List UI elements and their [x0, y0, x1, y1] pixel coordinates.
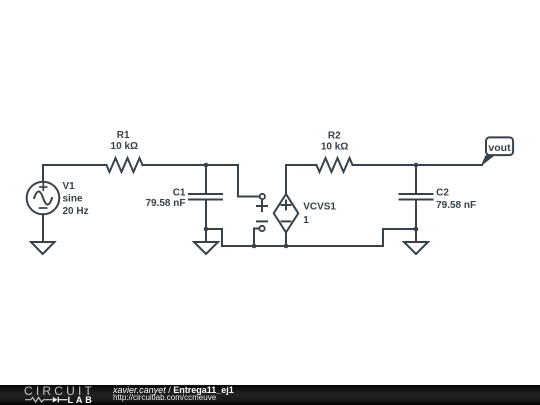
wire: C1 branch top	[205, 165, 207, 194]
dependent source VCVS1 (diamond)	[274, 194, 299, 232]
ground (under C2)	[404, 242, 428, 254]
capacitor C2	[400, 194, 433, 200]
ground (under V1)	[31, 242, 55, 254]
svg-text:10 kΩ: 10 kΩ	[111, 141, 138, 152]
wire: VCVS output bottom to bottom rail	[285, 232, 287, 246]
resistor R2	[317, 158, 353, 172]
svg-text:1: 1	[303, 215, 309, 226]
CircuitLab logo	[23, 385, 133, 405]
junction: R1/C1 node	[204, 163, 209, 168]
junction: C1 bottom node	[204, 227, 209, 232]
svg-text:20 Hz: 20 Hz	[63, 206, 89, 217]
wire: R2 right to vout flag (net vout)	[353, 164, 483, 166]
wire: bottom rail (reference net)	[222, 229, 416, 246]
svg-text:79.58 nF: 79.58 nF	[436, 200, 476, 211]
footer url line	[113, 394, 216, 402]
svg-text:V1: V1	[63, 181, 76, 192]
net flag vout	[482, 137, 513, 165]
ground (under C1)	[194, 242, 218, 254]
wire: VCVS output top to R2 left	[286, 165, 317, 194]
terminal: VCVS - sense input	[257, 221, 267, 231]
footer author / title line	[113, 386, 234, 395]
wire: C2 branch top	[415, 165, 417, 194]
svg-text:R1: R1	[117, 130, 130, 141]
svg-text:79.58 nF: 79.58 nF	[145, 198, 185, 209]
wire: C1 bottom to ground	[205, 200, 207, 243]
svg-text:C1: C1	[173, 187, 186, 198]
capacitor C1	[189, 194, 222, 200]
wire: C2 bottom to ground	[415, 200, 417, 243]
junction: C2 bottom node	[414, 227, 419, 232]
svg-text:sine: sine	[63, 194, 83, 205]
wire: VCVS - control terminal to bottom rail	[254, 229, 259, 247]
junction: VCVS bottom on bottom rail	[284, 244, 289, 249]
junction: minus sense on bottom rail	[252, 244, 257, 249]
svg-text:vout: vout	[488, 142, 511, 154]
svg-text:VCVS1: VCVS1	[303, 202, 336, 213]
wire: V1 bottom to ground	[42, 214, 44, 242]
junction: R2/C2 node	[414, 163, 419, 168]
resistor R1	[107, 158, 143, 172]
footer attribution bar	[0, 385, 540, 405]
wire: R1 right to VCVS + control terminal (net vin filtered)	[143, 165, 260, 197]
wire: C1 bottom node to bottom rail	[206, 229, 222, 246]
svg-text:R2: R2	[328, 130, 341, 141]
svg-text:10 kΩ: 10 kΩ	[321, 141, 348, 152]
voltage source V1	[27, 182, 60, 215]
terminal: VCVS + sense input	[257, 194, 267, 211]
wire: V1 top to R1 left	[43, 165, 107, 182]
svg-text:C2: C2	[436, 187, 449, 198]
svg-text:LAB: LAB	[68, 395, 95, 405]
